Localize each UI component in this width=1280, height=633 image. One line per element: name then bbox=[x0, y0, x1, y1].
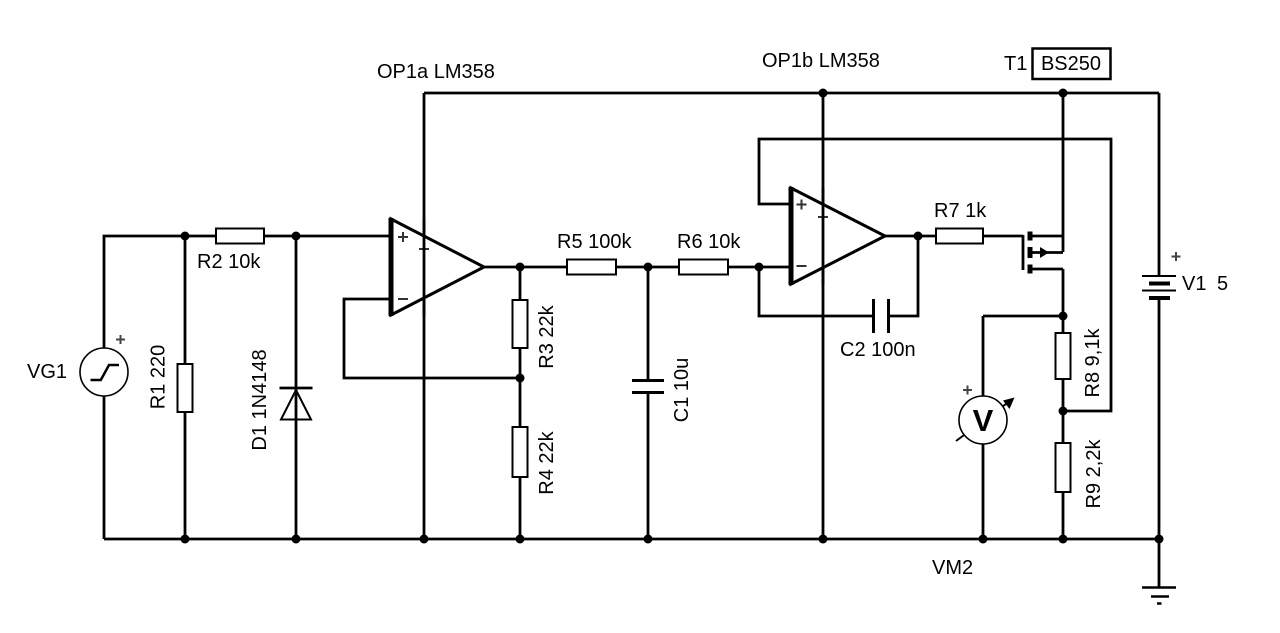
svg-text:R3 22k: R3 22k bbox=[536, 304, 558, 368]
svg-text:T1: T1 bbox=[1004, 53, 1027, 75]
svg-text:C2 100n: C2 100n bbox=[840, 339, 916, 361]
svg-text:R5 100k: R5 100k bbox=[557, 231, 632, 253]
svg-text:BS250: BS250 bbox=[1041, 53, 1101, 75]
svg-text:VG1: VG1 bbox=[27, 361, 67, 383]
svg-text:R1 220: R1 220 bbox=[148, 345, 170, 410]
svg-text:D1 1N4148: D1 1N4148 bbox=[249, 349, 271, 450]
svg-text:5: 5 bbox=[1217, 273, 1228, 295]
svg-text:R7 1k: R7 1k bbox=[934, 200, 987, 222]
svg-text:C1 10u: C1 10u bbox=[671, 358, 693, 423]
svg-text:OP1a LM358: OP1a LM358 bbox=[377, 61, 495, 83]
svg-text:V: V bbox=[973, 403, 994, 438]
svg-text:R9 2,2k: R9 2,2k bbox=[1083, 439, 1105, 509]
svg-text:R4 22k: R4 22k bbox=[536, 430, 558, 494]
svg-text:R6 10k: R6 10k bbox=[677, 231, 741, 253]
svg-text:VM2: VM2 bbox=[932, 557, 973, 579]
svg-text:OP1b LM358: OP1b LM358 bbox=[762, 50, 880, 72]
svg-text:R2 10k: R2 10k bbox=[197, 251, 261, 273]
svg-text:V1: V1 bbox=[1182, 273, 1206, 295]
svg-text:R8 9,1k: R8 9,1k bbox=[1082, 328, 1104, 398]
